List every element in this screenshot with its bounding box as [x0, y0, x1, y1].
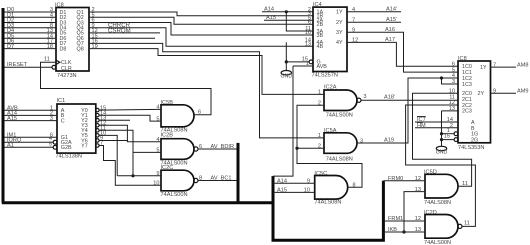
svg-text:Q8: Q8: [77, 46, 84, 52]
wire IC1 Y0 to IC5B pin 4: [99, 108, 161, 111]
ground symbol below IC4: [281, 71, 291, 75]
wire 4Y A17 to 1C0: [347, 42, 458, 66]
svg-text:A14: A14: [277, 178, 287, 184]
svg-text:G2B: G2B: [61, 145, 72, 151]
svg-text:5: 5: [156, 148, 159, 154]
svg-text:7: 7: [493, 62, 496, 68]
svg-text:3: 3: [363, 94, 366, 100]
svg-text:4B: 4B: [317, 44, 324, 50]
wire IC5B out 6 to CLK net: [194, 89, 211, 115]
svg-text:A19: A19: [384, 137, 394, 143]
wire 3Y A16 to 1C1: [347, 32, 458, 72]
wire 2C3 to ground: [442, 110, 459, 112]
svg-text:A15: A15: [266, 15, 276, 21]
svg-text:10: 10: [153, 181, 159, 187]
svg-text:2B: 2B: [317, 22, 324, 28]
wire IC1 Y5 to IC2C pin 9: [99, 135, 117, 175]
svg-text:1Y: 1Y: [336, 10, 343, 16]
svg-text:2: 2: [450, 123, 453, 129]
svg-text:IC2B: IC2B: [161, 133, 174, 139]
svg-text:9: 9: [307, 178, 310, 184]
svg-text:A14: A14: [264, 7, 274, 13]
svg-text:5: 5: [49, 141, 52, 147]
IC8 CLK pin 11 wedge: [56, 60, 60, 64]
wire IORQ to IC1 G2A bubble: [5, 141, 54, 143]
wire A1 to IC1 G2B bubble: [5, 146, 54, 148]
IC8 D0-D7 input wires and pins: [5, 11, 57, 13]
svg-text:IRESET: IRESET: [7, 62, 28, 68]
svg-text:74LS353N: 74LS353N: [458, 145, 484, 151]
wire A15 to IC5C pin 10: [273, 191, 315, 193]
wire A14 to IC4 1A and 3A: [262, 11, 313, 13]
wire IC1 Y1 to IC5B pin 5: [99, 115, 161, 121]
thick vertical bus left: [2, 8, 5, 203]
svg-text:2C3: 2C3: [462, 109, 472, 115]
svg-text:12: 12: [415, 216, 421, 222]
svg-text:1Y: 1Y: [480, 65, 487, 71]
svg-text:9: 9: [156, 171, 159, 177]
svg-text:2Y: 2Y: [478, 91, 485, 97]
wire branch to IC2B pin 5: [133, 151, 161, 153]
IC IC1 74LS138N box: [57, 104, 96, 153]
wire IC1 Y6 stub: [99, 140, 128, 142]
svg-text:12: 12: [415, 176, 421, 182]
svg-text:A16: A16: [385, 27, 395, 33]
svg-text:4: 4: [156, 137, 159, 143]
svg-text:AM8: AM8: [517, 62, 529, 68]
IC4 A/B select pin 1 wire AVB: [293, 65, 313, 67]
wire 1Y A14' stub: [347, 11, 401, 13]
svg-text:11: 11: [462, 181, 468, 187]
svg-text:IKB: IKB: [388, 227, 397, 233]
wire Q6 stub: [89, 37, 155, 39]
ground symbol right: [436, 146, 446, 150]
svg-text:74LS257N: 74LS257N: [312, 73, 338, 79]
wire IC5D out to 2C0: [413, 93, 472, 186]
wire 2Y A15' stub: [347, 21, 401, 23]
svg-text:8: 8: [199, 176, 202, 182]
svg-text:FRM0: FRM0: [388, 176, 403, 182]
svg-text:3: 3: [50, 116, 53, 122]
svg-text:IC8: IC8: [55, 3, 64, 9]
svg-text:CLR: CLR: [61, 66, 72, 72]
svg-text:74ALS00N: 74ALS00N: [424, 240, 451, 245]
svg-text:3: 3: [452, 79, 455, 85]
IC4 G pin 15 bubble and GND tie: [309, 60, 313, 64]
wire Q7 to IC5A pin1: [89, 43, 324, 137]
wire A15 to IC4 2A: [264, 19, 313, 21]
svg-text:1: 1: [318, 90, 321, 96]
wire A15 to IC1 C: [5, 120, 58, 122]
wire IC5C out to IC2A pin2 and IC5A pin2: [297, 105, 362, 187]
wire FRM1 to IC2D pin 12: [383, 220, 425, 222]
wire IM1 to IC1 G1: [5, 136, 58, 138]
wire FRM0 to IC5D pin 12: [383, 180, 425, 182]
svg-text:Y7: Y7: [81, 143, 88, 149]
wire IC1 Y7 to IC2C pin 10: [99, 146, 161, 186]
svg-text:13: 13: [415, 187, 421, 193]
wire IKB branch to IC5D pin 13: [404, 192, 425, 232]
wire Q4 CHRCR to IC4 4B: [89, 28, 313, 47]
svg-text:4: 4: [156, 105, 159, 111]
svg-text:5: 5: [156, 116, 159, 122]
wire AVB to IC1 A: [5, 109, 58, 111]
svg-text:AVB: AVB: [317, 64, 328, 70]
svg-text:74ALS00N: 74ALS00N: [326, 112, 353, 118]
wire IKB to IC2D pin 13: [383, 231, 425, 233]
svg-text:IC1: IC1: [57, 98, 66, 104]
wire 1Y AM8: [491, 66, 517, 68]
svg-text:9: 9: [493, 89, 496, 95]
svg-text:IC8: IC8: [458, 56, 467, 62]
svg-text:1: 1: [306, 61, 309, 67]
svg-text:A15: A15: [7, 116, 17, 122]
wire A14 to IC1 B: [5, 114, 58, 116]
wire IC2B out AV_BDIR: [198, 148, 237, 150]
svg-text:10: 10: [304, 188, 310, 194]
svg-text:2G: 2G: [471, 138, 478, 144]
thick vertical bus AV right: [237, 143, 240, 203]
thick bus U shape bottom middle: [273, 176, 383, 240]
svg-text:6: 6: [198, 109, 201, 115]
svg-text:13: 13: [415, 227, 421, 233]
wire Q1 to IC4 1B: [89, 12, 313, 16]
svg-text:3B: 3B: [317, 33, 324, 39]
svg-text:74ALS00N: 74ALS00N: [161, 192, 188, 198]
wire CLK net from IC5B output: [41, 62, 212, 115]
wire IC2A out A18' to 2C1: [361, 99, 458, 101]
wire IC2D out to 2C2: [406, 105, 476, 226]
svg-text:3Y: 3Y: [336, 30, 343, 36]
IC IC4 74LS257N box: [313, 7, 347, 71]
wire IC5A out A19 to 1C2 1C3: [357, 78, 458, 143]
svg-text:15: 15: [444, 133, 450, 139]
IC IC8 74273N box: [56, 8, 89, 72]
svg-text:A15': A15': [386, 17, 397, 23]
wire A14 to IC5C pin 9: [273, 182, 315, 184]
wire Q2 to IC4 2B: [89, 17, 313, 24]
svg-text:A14': A14': [386, 7, 397, 13]
svg-text:74273N: 74273N: [57, 73, 77, 79]
thick horizontal bus bottom: [2, 201, 273, 204]
wire Q3 to IC4 3B: [89, 23, 313, 36]
svg-text:1: 1: [318, 133, 321, 139]
wire IC2C out AV_BC1: [198, 180, 237, 182]
svg-text:GND: GND: [281, 74, 293, 80]
svg-text:FRM1: FRM1: [388, 216, 403, 222]
wire IC1 Y4 down to IC2C pin 9 junction: [99, 130, 133, 176]
svg-text:4Y: 4Y: [336, 40, 343, 46]
svg-text:1C3: 1C3: [462, 82, 472, 88]
svg-text:8: 8: [353, 183, 356, 189]
svg-text:13: 13: [305, 42, 311, 48]
svg-text:A15: A15: [277, 188, 287, 194]
svg-text:AV_BC1: AV_BC1: [211, 176, 232, 182]
svg-text:11: 11: [464, 220, 470, 226]
svg-text:74ALS08N: 74ALS08N: [424, 200, 451, 206]
IC IC8 74LS353N box: [458, 61, 491, 143]
svg-text:GND: GND: [436, 150, 448, 156]
svg-text:C: C: [61, 118, 65, 124]
svg-text:AV_BDIR: AV_BDIR: [211, 144, 235, 150]
svg-text:11: 11: [44, 57, 50, 63]
wire Q8 to IC2A pin1: [89, 49, 324, 95]
wire IC1 Y3 to IC2B pin 4: [99, 125, 161, 142]
svg-text:2Y: 2Y: [336, 20, 343, 26]
svg-text:A17: A17: [385, 37, 395, 43]
svg-text:D8: D8: [60, 46, 67, 52]
wire IRESET to CLR: [5, 66, 52, 68]
svg-text:HM: HM: [417, 123, 426, 129]
wire Q5 CSROM stub: [89, 32, 160, 34]
svg-text:74ALS08N: 74ALS08N: [314, 200, 341, 206]
wire IC1 Y2 stub: [99, 119, 130, 121]
IC8 CLR pin 1 bubble: [52, 65, 56, 69]
svg-text:AM9: AM9: [517, 89, 529, 95]
svg-text:6: 6: [199, 144, 202, 150]
svg-text:18: 18: [47, 44, 53, 50]
svg-text:IC4: IC4: [313, 2, 322, 8]
svg-text:A18': A18': [384, 95, 395, 101]
svg-text:D7: D7: [7, 44, 14, 50]
svg-text:74LS138N: 74LS138N: [56, 154, 82, 160]
svg-text:A1: A1: [7, 143, 14, 149]
svg-text:74ALS08N: 74ALS08N: [326, 157, 353, 163]
wire 2Y AM9: [491, 92, 517, 94]
